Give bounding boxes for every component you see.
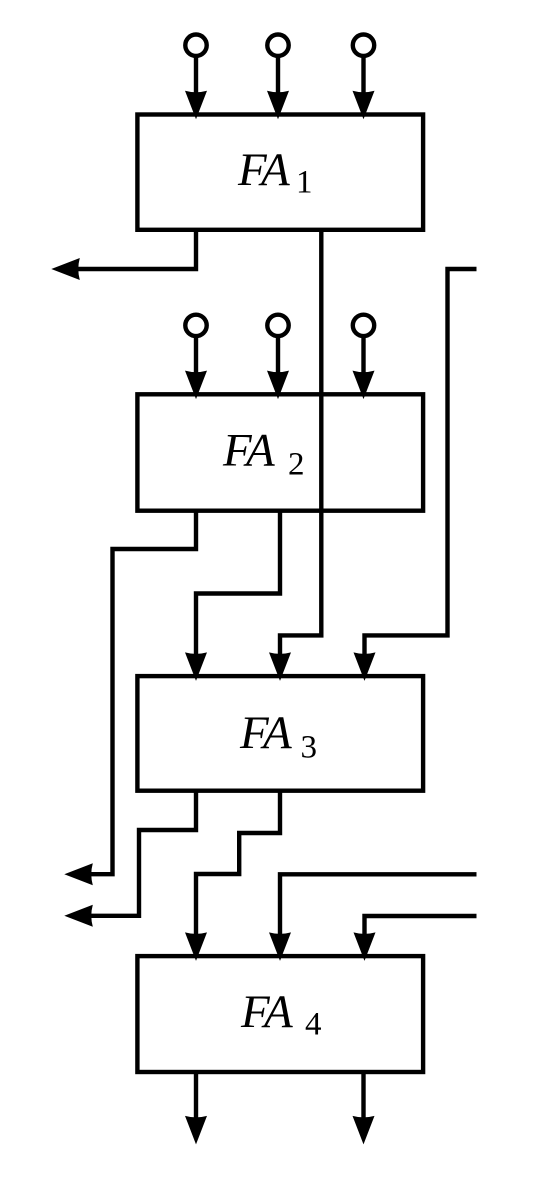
wire sum output S4 (down arrow)	[185, 1072, 207, 1144]
svg-text:2: 2	[288, 447, 305, 483]
svg-text:FA: FA	[222, 425, 275, 477]
input terminal circle X2	[185, 315, 206, 336]
label FA1	[237, 144, 313, 201]
label FA2	[222, 425, 305, 483]
wire Z1 into FA1 pin c	[353, 56, 375, 119]
wire sum output of FA3 (left arrow S3)	[64, 791, 196, 927]
full adder U4 box	[137, 956, 423, 1072]
full adder U3 box	[137, 676, 423, 791]
input terminal circle Y2	[267, 315, 288, 336]
wire carry FA3 to FA4 pin a	[185, 791, 280, 961]
wire carry FA1 to FA3 pin b	[269, 230, 321, 681]
wire X1 into FA1 pin a	[185, 56, 207, 119]
label FA3	[239, 707, 317, 766]
wire Y1 into FA1 pin b	[267, 56, 289, 119]
svg-text:FA: FA	[239, 707, 292, 759]
svg-text:4: 4	[305, 1007, 322, 1043]
input terminal circle Z1 (top right)	[353, 35, 374, 56]
wire sum output of FA1 (left arrow S1)	[51, 230, 196, 280]
wire carry output C4 (down arrow)	[353, 1072, 375, 1144]
wire Z2 into FA2 pin c	[353, 336, 375, 399]
full adder U2 box	[137, 394, 423, 510]
svg-text:1: 1	[296, 165, 313, 201]
wire X2 into FA2 pin a	[185, 336, 207, 399]
wire carry FA2 to FA3 pin a	[185, 511, 280, 681]
label FA4	[240, 986, 322, 1043]
svg-text:FA: FA	[240, 986, 293, 1038]
input terminal circle Y1 (top middle)	[267, 35, 288, 56]
wire sum output of FA2 (left arrow S2)	[64, 511, 196, 886]
wire carry-in stub from right into FA3 pin c	[354, 269, 477, 681]
wire Y2 into FA2 pin b	[267, 336, 289, 399]
input terminal circle Z2	[353, 315, 374, 336]
input terminal circle X1 (top left)	[185, 35, 206, 56]
svg-text:3: 3	[301, 730, 318, 766]
full adder U1 box	[137, 115, 423, 230]
svg-text:FA: FA	[237, 144, 290, 196]
wire incoming from right into FA4 pin b	[269, 874, 477, 961]
wire incoming from right into FA4 pin c	[354, 916, 477, 961]
